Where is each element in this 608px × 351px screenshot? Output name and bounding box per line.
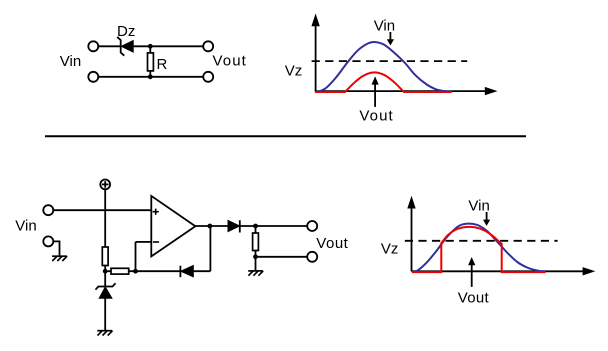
x axis arrowhead [485,87,498,95]
wire load resistor bottom lead [255,251,257,257]
node junction top [148,44,153,49]
diode D2 output triangle [228,220,240,231]
svg-text:Vout: Vout [316,235,348,252]
y axis [315,25,317,92]
node junction4 [253,224,258,229]
svg-text:R: R [157,56,168,73]
diode Dz zener cathode bar [117,37,124,56]
x axis (bottom graph) [412,270,584,272]
node junction5 [253,254,258,259]
op-amp U1 plus input mark [153,209,159,215]
wire bottom [99,76,203,78]
wire resistor top lead [149,46,151,53]
ground G2 (zener) [97,331,112,336]
terminal Vout bottom [203,72,213,82]
ground G3 (load) [248,271,263,276]
wire resistor to zener [104,266,106,287]
diode Dz2 zener cathode bar [96,283,116,289]
wire diode to Vout [240,225,307,227]
wire Vin lower stub [54,241,60,256]
wire resistor bottom lead [149,71,151,77]
power V+ plus horizontal [102,183,109,185]
terminal Vout top (bottom circuit) [307,221,317,231]
ground G1 (Vin stub) [52,256,67,261]
svg-text:Vz: Vz [381,241,399,258]
svg-text:Vout: Vout [458,289,490,306]
y axis (bottom graph) [411,207,413,271]
svg-text:Vout: Vout [213,53,247,70]
wire junction2 to feedback diode [136,270,181,272]
Vz dashed level line (bottom graph) [405,240,558,242]
svg-text:Dz: Dz [117,23,135,40]
wire to opamp minus [136,241,152,243]
arrow Vin pointer shaft (bottom graph) [486,212,488,220]
wire load resistor top lead [255,226,257,233]
terminal Vin top (bottom circuit) [43,205,53,215]
arrow Vout pointer head (bottom graph) [468,257,475,265]
wire h-resistor to junction2 [129,270,136,272]
diode Dz triangle [121,41,133,53]
curve Vout (red) [315,72,451,92]
resistor R body [148,53,154,71]
wire separator line [45,135,526,137]
curve Vin bottom (blue) [415,224,546,272]
arrow Vin pointer head (bottom graph) [483,220,490,226]
wire top-left segment [99,45,121,47]
y axis arrowhead (bottom graph) [407,196,415,209]
diode D1 feedback triangle [181,266,194,277]
Vz dashed level line [312,60,468,62]
op-amp U1 minus input mark [153,241,159,243]
op-amp U1 body [151,196,195,257]
curve Vin (blue) [317,42,453,92]
arrow Vout pointer shaft (bottom graph) [471,264,473,287]
svg-text:Vout: Vout [359,107,393,124]
wire junction5 to Vout lower [256,256,308,258]
wire junction to h-resistor [105,270,111,272]
terminal Vin top [88,41,98,51]
node junction2 [133,269,138,274]
x axis [316,90,486,92]
terminal Vout bottom (bottom circuit) [307,252,317,262]
arrow Vin pointer shaft [389,32,391,40]
diode D1 feedback cathode bar [179,266,181,278]
svg-text:Vin: Vin [468,197,489,214]
svg-text:Vin: Vin [374,18,395,35]
wire feedback diode to riser [193,270,210,272]
resistor R1 vertical body [102,247,108,266]
power V+ plus vertical [104,181,106,188]
diode Dz2 triangle [99,287,112,298]
wire feedback riser [209,226,211,271]
svg-text:Vin: Vin [15,218,36,235]
svg-text:Vz: Vz [285,62,303,79]
power V+ symbol circle [100,180,110,190]
wire junction5 to ground [255,257,257,271]
arrow Vin pointer head [387,39,394,45]
terminal Vin bottom [88,72,98,82]
diode D2 output cathode bar [239,220,241,232]
terminal Vout top [203,41,213,51]
terminal Vin bottom (bottom circuit) [43,236,53,246]
wire feedback vertical [135,242,137,271]
wire zener to ground [104,298,106,331]
x axis arrowhead (bottom graph) [583,267,596,275]
arrow Vout pointer shaft [374,84,376,107]
arrow Vout pointer head [372,76,379,84]
wire Vin to opamp + [54,209,151,211]
wire power rail down [104,190,106,247]
curve Vout bottom (red) [412,227,546,272]
wire opamp output [195,225,228,227]
y axis arrowhead [311,14,319,27]
svg-text:Vin: Vin [60,53,81,70]
node junction bottom [148,74,153,79]
node junction zener [103,269,108,274]
wire top-right segment [133,45,202,47]
resistor R3 load body [253,233,259,251]
resistor R2 horizontal body [111,268,129,274]
node junction3 (opamp output) [208,224,213,229]
